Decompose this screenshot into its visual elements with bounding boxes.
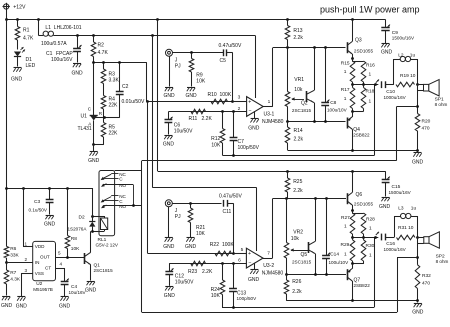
svg-text:3.3K: 3.3K [109,78,120,84]
svg-text:470: 470 [422,281,430,287]
inductor L3 with R31 [395,205,418,239]
wire speaker node ch1 [416,83,423,113]
svg-text:GND: GND [44,222,56,228]
svg-text:C3: C3 [34,199,40,205]
svg-text:U3-2: U3-2 [263,263,274,269]
svg-text:1: 1 [344,252,347,258]
svg-text:1: 1 [268,99,271,105]
wire driver node ch1 [273,46,346,49]
relay contact set 2 [101,194,142,209]
resistor R18 [361,88,374,109]
wire relay NO link [115,171,142,207]
svg-text:6: 6 [238,258,241,264]
transistor Q2 2SC1015 [292,48,315,122]
svg-text:R30: R30 [366,243,375,249]
svg-text:GND: GND [71,71,83,77]
svg-text:2: 2 [24,257,27,262]
svg-text:R22: R22 [210,242,219,248]
svg-text:R25: R25 [293,179,302,185]
svg-text:push-pull 1W power amp: push-pull 1W power amp [320,4,420,14]
wire feedback node ch1 [223,85,375,157]
svg-text:PJ: PJ [175,214,181,220]
svg-text:CT: CT [45,266,51,271]
svg-text:R31 10: R31 10 [398,225,414,231]
svg-text:GND: GND [412,310,424,316]
svg-text:GND: GND [248,126,260,132]
resistor R22 [210,242,235,256]
svg-text:2.2k: 2.2k [292,289,302,295]
resistor R7 [4,261,21,295]
svg-text:GND: GND [16,304,28,310]
svg-text:1: 1 [369,253,372,259]
svg-text:10K: 10K [196,231,206,237]
capacitor C1 [46,36,82,63]
svg-text:+12V: +12V [13,5,26,11]
svg-text:10k: 10k [291,236,300,242]
svg-text:1000u/16V: 1000u/16V [384,95,407,100]
svg-text:1: 1 [344,96,347,102]
svg-text:GND: GND [11,77,23,83]
capacitor C16 [376,232,407,252]
svg-text:Q5: Q5 [301,252,308,258]
input jack J PJ channel 1 [166,49,224,86]
capacitor C14 [322,199,349,275]
svg-text:LED: LED [26,63,36,69]
svg-text:1000u/16V: 1000u/16V [384,247,407,252]
svg-text:R12: R12 [211,136,220,142]
transistor Q7 2SB822 [347,269,370,301]
svg-text:PJ: PJ [175,64,181,70]
potentiometer VR2 [284,199,308,275]
resistor R25 [285,171,303,198]
inductor L2 with R19 [394,52,418,87]
svg-text:33K: 33K [10,253,19,259]
svg-text:2.2k: 2.2k [293,35,303,41]
svg-text:1500u/16V: 1500u/16V [392,36,415,41]
wire U2 IN [6,257,33,263]
ground for C4 [59,297,71,310]
svg-text:R13: R13 [293,28,302,34]
inductor L1 [39,19,256,46]
wire emitter node ch2 [285,273,346,276]
wire op-amp minus input ch2 [169,262,246,265]
wire 12V rail ch2 [158,170,386,173]
wire speaker line to relay ch1 [142,107,418,313]
resistor R24 [211,263,225,307]
svg-text:VSS: VSS [35,271,44,276]
resistor R29 [341,240,355,261]
svg-text:Q6: Q6 [356,192,363,198]
resistor R1 [15,19,34,49]
wire Vref bias bus [146,100,247,253]
resistor R8 [65,188,80,257]
resistor R10 [208,92,232,104]
ground for U3-2 [248,263,260,283]
ground for U3-1 [248,111,260,131]
svg-text:OUT: OUT [40,255,50,260]
svg-text:5: 5 [241,247,244,253]
svg-text:NJM4580: NJM4580 [262,119,284,125]
ground for D1 [11,68,23,83]
svg-text:R16: R16 [366,63,375,69]
svg-text:R29: R29 [341,242,350,248]
ground for U2 VSS [16,297,28,310]
capacitor C10 [376,80,407,101]
capacitor C13 [229,263,257,307]
capacitor C8 [321,48,347,122]
ground for output ch2 [412,301,424,316]
wire feedback node ch2 [222,237,375,309]
svg-text:10K: 10K [211,142,221,148]
op-amp U3-1 NJM4580 [233,36,284,125]
svg-text:R17: R17 [341,87,350,93]
svg-text:GND: GND [85,288,97,294]
wire speaker node ch2 [416,236,424,265]
svg-text:22K: 22K [109,103,119,109]
speaker SP1 [424,80,448,107]
resistor R4 [101,96,118,118]
svg-text:C10: C10 [386,89,395,95]
svg-text:IN: IN [35,260,40,265]
resistor R2 [91,36,108,63]
svg-text:R23: R23 [188,269,197,275]
resistor R14 [285,121,303,150]
svg-text:2SD1055: 2SD1055 [354,202,374,207]
svg-text:1: 1 [369,72,372,78]
transistor Q4 2SB822 [347,117,370,151]
svg-text:GND: GND [59,304,71,310]
resistor R21 [188,203,205,237]
svg-text:4: 4 [60,262,63,267]
svg-text:L1: L1 [45,25,51,31]
svg-text:R10: R10 [208,92,217,98]
svg-text:10K: 10K [211,293,221,299]
speaker SP2 [424,232,449,264]
svg-text:NO: NO [119,183,126,188]
relay RL1 box [96,171,119,248]
capacitor C9 [381,19,415,43]
ground for R7 [1,297,13,310]
capacitor C4 [61,279,87,296]
svg-text:10u/50V: 10u/50V [174,129,193,135]
svg-text:−: − [248,260,251,266]
resistor R12 [211,112,225,156]
svg-text:4.3K: 4.3K [10,277,21,283]
svg-text:C14: C14 [330,252,339,258]
ground for C3 [44,216,56,228]
capacitor C15 [382,171,412,196]
ground for U1 [88,143,100,164]
wire +12V left rail to U2 [5,19,92,246]
svg-text:3: 3 [24,268,27,273]
svg-text:GND: GND [412,160,424,166]
IC U2 M51957B [33,241,56,291]
svg-text:VDD: VDD [35,244,45,249]
wire U2 OUT [56,251,85,259]
resistor R26 [284,274,302,301]
ground for jack 2 [163,238,175,251]
resistor R15 [341,59,364,85]
transistor Q5 2SC1015 [292,199,316,275]
svg-text:GND: GND [164,293,176,299]
ground for C12 [164,287,176,299]
svg-text:R2: R2 [98,43,105,49]
LED D1 [14,47,36,69]
svg-text:R32: R32 [422,273,431,279]
svg-text:L3: L3 [398,205,404,211]
wire output node ch2 [351,236,378,239]
svg-text:100u/0.57A: 100u/0.57A [41,41,67,47]
svg-text:7: 7 [267,251,270,257]
svg-text:R6: R6 [10,246,16,252]
svg-text:R27: R27 [341,215,350,221]
svg-text:GND: GND [163,142,175,148]
svg-text:0.01u/50V: 0.01u/50V [122,99,145,105]
resistor R32 [415,265,431,301]
svg-text:2SC1815: 2SC1815 [292,108,312,113]
ground for C1 [71,64,83,77]
svg-text:10u/16V: 10u/16V [69,290,87,295]
svg-text:C2: C2 [122,84,129,90]
resistor R23 [188,261,213,275]
input jack J PJ channel 2 [165,200,221,237]
svg-text:2SB822: 2SB822 [353,133,370,138]
capacitor C12 [165,263,194,286]
wire +12V raw bus [5,9,385,21]
svg-text:1500u/16V: 1500u/16V [389,190,412,195]
ground for jack 1 [163,88,175,100]
shunt regulator U1 TL431 [78,63,106,145]
svg-text:GND: GND [185,244,197,250]
svg-text:2: 2 [238,106,241,112]
svg-text:0.1u/50V: 0.1u/50V [29,208,48,213]
svg-text:1u: 1u [411,205,417,211]
svg-text:8 ohm: 8 ohm [436,259,449,264]
svg-text:NJM4580: NJM4580 [262,270,284,276]
wire driver node ch2 [273,197,347,200]
svg-text:+: + [248,251,251,257]
transistor Q3 2SD1055 [347,19,374,60]
svg-text:VR2: VR2 [293,230,303,236]
svg-text:GND: GND [88,158,100,164]
svg-text:2.2k: 2.2k [293,188,303,194]
resistor R5 [94,118,118,145]
op-amp U3-2 NJM4580 [234,199,284,277]
svg-text:R26: R26 [292,279,301,285]
svg-text:2SD1055: 2SD1055 [354,49,374,54]
svg-text:1: 1 [24,242,27,247]
svg-text:2.2k: 2.2k [294,137,304,143]
svg-text:1S2076A: 1S2076A [68,227,88,232]
svg-text:GND: GND [185,93,197,99]
svg-text:C5: C5 [220,58,227,64]
svg-text:470: 470 [422,126,430,132]
svg-text:R8: R8 [71,236,77,242]
wire U2 CT with C4 [56,262,65,282]
svg-text:C8: C8 [330,100,336,106]
svg-text:1: 1 [369,226,372,232]
resistor R20 [415,114,430,151]
wire op-amp minus input ch1 [168,110,246,113]
svg-text:4.7K: 4.7K [98,50,109,56]
ground for C6 [163,136,175,148]
diode D2 1S2076A [68,215,96,233]
svg-text:GND: GND [379,204,391,210]
ground for output ch1 [412,150,424,165]
capacitor C7 [230,112,260,156]
wire Q4 emitter join [351,85,363,117]
wire GND bus ch2 [287,299,419,302]
wire 12V raw drop [157,19,159,171]
resistor R9 [189,53,206,87]
ground for R21 [185,238,197,251]
svg-text:2SC1815: 2SC1815 [94,268,114,273]
wire speaker line to relay ch2 [142,258,418,313]
svg-text:100p/50V: 100p/50V [238,145,260,151]
ground for C9 [381,44,393,56]
svg-text:D2: D2 [79,215,85,221]
svg-text:100p/50V: 100p/50V [237,296,258,301]
svg-text:TL431: TL431 [78,126,92,132]
resistor R16 [361,61,375,85]
svg-text:0.47u/50V: 0.47u/50V [219,194,242,200]
svg-text:2.2K: 2.2K [202,269,213,275]
svg-text:R20: R20 [422,119,431,125]
svg-text:1u: 1u [410,52,416,58]
svg-text:2.2K: 2.2K [202,116,213,122]
capacitor C6 [165,112,194,135]
capacitor C3 [29,188,54,215]
svg-text:R11: R11 [189,116,198,122]
potentiometer VR1 [285,48,304,122]
svg-text:3: 3 [238,94,241,100]
wire TL431 cathode node [92,61,147,101]
resistor R13 [285,19,303,47]
svg-text:5: 5 [58,251,61,256]
wire output node ch1 [351,83,378,86]
resistor R30 [361,240,374,261]
svg-text:1: 1 [344,69,347,75]
resistor R17 [341,87,355,109]
svg-text:GND: GND [163,244,175,250]
capacitor C5 [219,43,242,102]
svg-text:U3-1: U3-1 [264,111,275,117]
svg-text:U1: U1 [81,114,88,120]
svg-text:100u/10V: 100u/10V [327,108,348,113]
svg-text:G5V-2 12V: G5V-2 12V [96,242,119,247]
svg-text:4.7K: 4.7K [23,36,34,42]
svg-text:R7: R7 [10,270,16,276]
transistor Q1 2SC1015 [85,231,114,280]
svg-text:GND: GND [248,277,260,283]
ground for Q1 [85,282,97,294]
svg-text:R14: R14 [294,128,303,134]
ground for C15 [379,198,391,211]
ground for R9 [185,88,197,100]
svg-text:100K: 100K [220,92,232,98]
svg-text:8 ohm: 8 ohm [435,102,448,107]
resistor R27 [341,211,364,238]
resistor R6 [4,246,19,262]
svg-text:Q2: Q2 [301,101,308,107]
svg-text:Q3: Q3 [355,38,362,44]
svg-text:GND: GND [163,93,175,99]
svg-text:10K: 10K [71,246,80,252]
svg-text:M51957B: M51957B [33,287,53,292]
power symbol +12V [3,3,26,11]
svg-text:−: − [248,109,251,115]
svg-text:LHLZ06-101: LHLZ06-101 [54,25,82,31]
svg-text:C16: C16 [386,241,395,247]
svg-text:10K: 10K [196,78,206,84]
svg-text:R19 10: R19 10 [400,73,416,79]
resistor R11 [189,109,213,122]
svg-text:GND: GND [381,49,393,55]
capacitor C11 [219,194,242,254]
svg-text:L2: L2 [398,52,404,58]
resistor R3 [101,63,119,96]
svg-text:C11: C11 [223,209,232,215]
svg-text:NO: NO [119,204,126,209]
svg-text:2SB822: 2SB822 [354,283,371,288]
wire 12V filtered drop [153,36,257,251]
transistor Q6 2SD1055 [347,171,374,212]
wire U2 VSS [21,268,32,296]
wire emitter node ch1 [286,120,345,123]
wire Q7 emitter join [351,237,363,269]
relay contact set 1 [101,172,133,188]
svg-text:R18: R18 [366,89,375,95]
svg-text:0.47u/50V: 0.47u/50V [219,43,242,49]
svg-text:10u/50V: 10u/50V [175,280,194,286]
svg-text:R15: R15 [341,60,350,66]
svg-text:10k: 10k [294,87,303,93]
relay coil [92,216,107,232]
svg-text:R1: R1 [23,28,30,34]
svg-text:2SC1815: 2SC1815 [292,259,312,264]
svg-text:+: + [248,100,251,106]
wire pin5 bias ch2 [147,252,246,255]
wire GND bus ch1 [288,149,419,152]
svg-text:1: 1 [369,99,372,105]
svg-text:100u/10V: 100u/10V [329,260,350,265]
svg-text:22K: 22K [109,131,119,137]
svg-text:VR1: VR1 [294,77,304,83]
svg-text:100u/16V: 100u/16V [51,57,73,63]
svg-text:100K: 100K [222,242,234,248]
resistor R28 [361,213,375,237]
svg-text:R28: R28 [366,217,375,223]
capacitor C2 [104,63,145,118]
svg-text:1: 1 [344,224,347,230]
svg-text:GND: GND [1,303,13,309]
wire U2 VDD [23,188,33,247]
